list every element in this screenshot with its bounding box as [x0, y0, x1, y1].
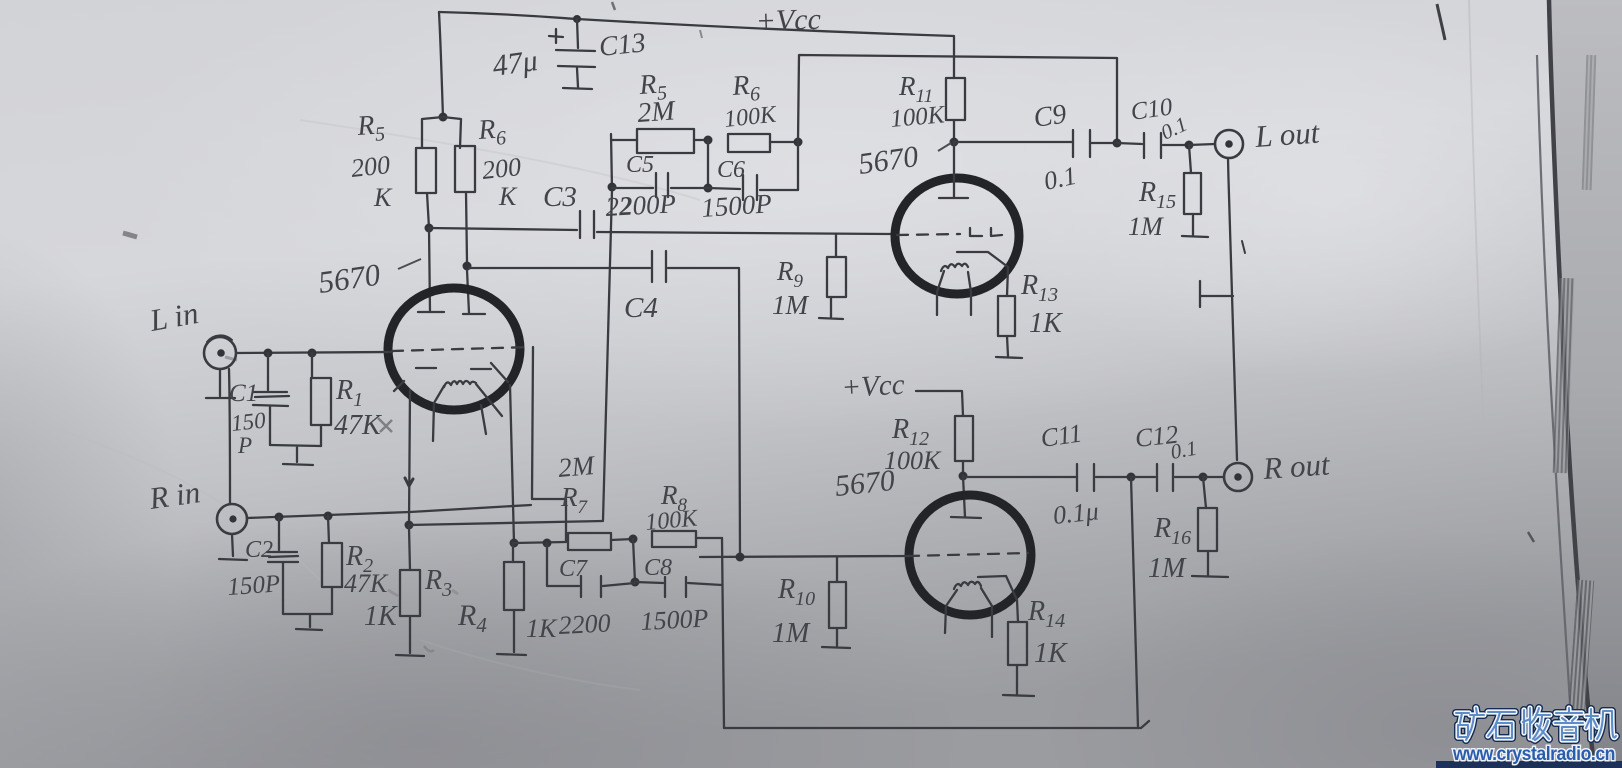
wire left bar of RC network — [611, 134, 612, 190]
resistor R5 (200K vertical) — [416, 148, 436, 193]
capacitor C12 — [1131, 476, 1155, 478]
svg-text:1M: 1M — [772, 618, 811, 649]
wire junction drop to bottom bus — [1131, 477, 1138, 728]
node anode-L junction — [425, 224, 434, 233]
wire anode-R lead into tube — [467, 270, 469, 313]
svg-text:C6: C6 — [717, 157, 745, 183]
svg-text:L out: L out — [1253, 115, 1322, 155]
lower channel — [916, 391, 973, 517]
node U2 anode — [950, 138, 959, 147]
svg-text:C8: C8 — [644, 555, 672, 581]
tube U1 5670 envelope — [388, 288, 520, 410]
svg-text:47K: 47K — [334, 410, 382, 441]
wire to L out jack — [1189, 144, 1215, 145]
resistor R13 1K — [998, 296, 1015, 336]
U1 grid dashed line — [392, 347, 531, 351]
paper edge shadow line — [1549, 0, 1594, 768]
wire cathode feedback line — [409, 521, 603, 525]
resistor R1 47K — [311, 353, 313, 378]
jack L in — [204, 337, 236, 369]
U1 anode bar right — [463, 313, 485, 315]
svg-text:2M: 2M — [636, 95, 677, 129]
resistor R6 (100K horizontal) — [728, 134, 770, 152]
svg-text:2200: 2200 — [558, 608, 611, 640]
svg-text:1500P: 1500P — [640, 603, 709, 636]
ground stub under R in jack — [219, 534, 247, 560]
wire U3 anode lead — [963, 476, 965, 517]
U3 anode bar — [951, 517, 981, 518]
svg-text:P: P — [237, 433, 252, 458]
wire network right drop to bottom bus — [722, 538, 724, 728]
wire U2 anode lead — [953, 142, 955, 197]
U1 leg arrow mark — [405, 478, 413, 486]
resistor R6 (200K vertical) — [455, 146, 475, 192]
svg-text:1M: 1M — [1148, 553, 1187, 584]
watermark chinese glyphs — [1456, 708, 1616, 740]
wire C3 to U2 grid — [597, 232, 895, 234]
node C5/C6 mid — [704, 184, 713, 193]
resistor R9 1M — [835, 234, 837, 257]
node network right end — [794, 138, 803, 147]
wire L in to R in link — [229, 369, 230, 503]
svg-text:47K: 47K — [344, 569, 389, 598]
U1 anode bar left — [418, 311, 444, 313]
node R5/R6 mid — [704, 136, 713, 145]
resistor R16 1M — [1203, 477, 1206, 508]
svg-text:+Vcc: +Vcc — [841, 369, 906, 404]
wire anode-L lead into tube — [429, 228, 430, 312]
U2 cathode bar and drop to R13 — [957, 252, 1008, 296]
U3 heater slant legs — [945, 590, 957, 633]
wire L out shield drop to R out — [1228, 158, 1237, 460]
svg-text:100K: 100K — [644, 505, 700, 536]
resistor R8 100K horizontal — [652, 531, 696, 547]
capacitor C13 — [549, 19, 595, 89]
node C2 top — [275, 513, 284, 522]
node C11/C12 junction — [1127, 473, 1136, 482]
node C9/C10 junction — [1113, 139, 1122, 148]
svg-text:1K: 1K — [1029, 308, 1063, 339]
svg-text:150: 150 — [230, 407, 267, 436]
wire C4 link from right anode — [469, 267, 650, 269]
U2 grid dashed line — [897, 234, 960, 235]
node C5 left — [608, 183, 617, 192]
svg-text:5670: 5670 — [833, 464, 896, 503]
svg-text:C3: C3 — [543, 181, 577, 213]
wire C4 to lower grid drop — [668, 268, 740, 557]
wire +VCC top rail — [439, 12, 954, 36]
resistor R12 100K — [955, 416, 973, 461]
capacitor C7 — [547, 543, 579, 586]
wire R in to U1 right grid — [247, 505, 531, 518]
wire +VCC2 stub — [916, 391, 963, 416]
capacitor C1 — [267, 353, 269, 390]
tube U3 5670 envelope — [909, 495, 1031, 615]
node junction top of C13 — [573, 15, 581, 23]
node R1 top — [308, 349, 317, 358]
svg-text:www.crystalradio.cn: www.crystalradio.cn — [1452, 744, 1615, 765]
U1 cathode left slant — [433, 386, 444, 441]
U2 cathode squiggle — [941, 264, 968, 271]
wire L in to U1 grid — [236, 352, 392, 353]
wire lower grid line — [700, 556, 908, 557]
second paper sheet at right edge — [1549, 0, 1622, 768]
resistor R7 2M horizontal — [568, 533, 611, 550]
jack L out — [1215, 130, 1243, 158]
wire R6 bottom lead — [466, 192, 467, 262]
wire feedback vertical (C5C6 network to cathode line) — [603, 190, 612, 520]
svg-text:100K: 100K — [889, 101, 947, 133]
hatched shadow strips on edge — [1553, 278, 1575, 473]
resistor R2 47K — [328, 516, 329, 543]
node C7/C8 mid — [631, 578, 640, 587]
svg-text:C2: C2 — [245, 537, 273, 563]
U1 cathode squiggle — [444, 381, 476, 387]
svg-text:47μ: 47μ — [490, 44, 539, 83]
ground stub under L in jack — [206, 369, 235, 398]
svg-text:0.1μ: 0.1μ — [1052, 496, 1100, 530]
jack R in — [217, 504, 247, 534]
svg-text:C1: C1 — [229, 380, 258, 407]
wire mid link R7C7 — [633, 539, 635, 582]
svg-text:1500P: 1500P — [700, 188, 772, 223]
wire U3 anode to C11 — [963, 476, 1077, 478]
svg-text:150P: 150P — [227, 570, 282, 601]
resistor R5 (2M horizontal) — [611, 139, 637, 141]
faint paper creases and smudges — [300, 120, 700, 200]
U1 grid side slants — [394, 363, 508, 391]
U1 cathode long leg to R3 — [409, 390, 410, 525]
svg-text:R in: R in — [146, 474, 202, 516]
svg-text:K: K — [498, 182, 518, 211]
resistor R10 1M — [836, 557, 838, 582]
node C1 top — [264, 349, 273, 358]
U1 sub grid dashes — [416, 368, 491, 369]
svg-text:C9: C9 — [1032, 99, 1069, 134]
terminal stub mid right — [1200, 281, 1233, 307]
U2 anode bar — [939, 197, 968, 199]
wire R5 bottom lead — [427, 193, 429, 228]
wire to R out jack — [1203, 476, 1224, 478]
svg-text:1K: 1K — [364, 601, 398, 632]
capacitor C5 — [612, 187, 653, 189]
node C4 drop junction — [736, 553, 745, 562]
tube U2 5670 envelope — [895, 178, 1019, 294]
svg-text:C5: C5 — [626, 152, 654, 178]
node U3 anode — [959, 472, 968, 481]
svg-text:+Vcc: +Vcc — [755, 3, 821, 38]
resistor R15 1M — [1189, 145, 1191, 173]
node C7 top — [543, 539, 552, 548]
U2 grid corner marks — [970, 228, 1002, 236]
svg-text:1M: 1M — [1128, 212, 1164, 241]
stray tick — [1242, 241, 1245, 253]
wire +VCC left drop to R5/R6 pair — [439, 12, 443, 117]
resistor R14 1K — [1008, 622, 1027, 665]
svg-text:0.1: 0.1 — [1169, 436, 1199, 464]
svg-text:C4: C4 — [624, 292, 658, 324]
wire bracket over R5 R6 — [422, 117, 461, 148]
ground C1/R1 — [270, 445, 321, 465]
wire bottom return bus — [724, 721, 1149, 728]
svg-text:C11: C11 — [1039, 418, 1084, 452]
svg-text:1M: 1M — [772, 290, 810, 320]
ground C2/R2 — [283, 600, 332, 630]
capacitor C2 — [278, 517, 280, 550]
U2 heater slant legs — [937, 271, 944, 315]
svg-text:1K: 1K — [526, 614, 558, 643]
capacitor C6 — [708, 188, 740, 189]
svg-text:C7: C7 — [559, 556, 588, 582]
node R15 top — [1185, 141, 1194, 150]
wire U1 right grid drop — [532, 347, 566, 541]
watermark url bar — [1436, 761, 1622, 768]
capacitor C3 — [580, 211, 594, 238]
capacitor C4 — [652, 251, 666, 282]
svg-text:200: 200 — [350, 150, 392, 183]
U3 cathode squiggle — [954, 582, 981, 589]
wire riser from network right end to output bus — [798, 55, 1117, 143]
svg-text:K: K — [373, 183, 393, 212]
wire grid node bus — [514, 542, 566, 543]
wire mid link — [707, 140, 709, 188]
U3 grid dashed line — [908, 553, 1028, 556]
wire U2 anode to C9 — [954, 141, 1073, 143]
svg-text:2200P: 2200P — [605, 188, 677, 222]
svg-text:2M: 2M — [557, 450, 597, 483]
resistor R11 100K — [953, 37, 955, 78]
svg-text:R out: R out — [1261, 446, 1332, 486]
jack R out — [1224, 463, 1252, 491]
capacitor C10 — [1117, 143, 1142, 144]
capacitor C8 — [635, 582, 663, 583]
node cathode/R3 junction — [405, 521, 414, 530]
resistor R4 1K — [510, 385, 514, 543]
svg-text:C13: C13 — [597, 27, 647, 63]
svg-text:1K: 1K — [1034, 638, 1068, 669]
node R2 top — [324, 512, 333, 521]
node junction R5/R6 top — [439, 113, 448, 122]
U3 cathode bar and drop to R14 — [978, 576, 1018, 622]
capacitor C11 — [1077, 464, 1094, 491]
svg-text:200: 200 — [481, 152, 523, 185]
resistor R3 1K — [409, 527, 410, 570]
wire C3 link from left anode — [429, 228, 577, 230]
node R16 top — [1199, 473, 1208, 482]
node anode-R junction — [463, 262, 472, 271]
U1 cathode right slant — [476, 384, 502, 434]
node R7/R8 mid — [629, 535, 638, 544]
capacitor C9 — [1073, 130, 1090, 157]
